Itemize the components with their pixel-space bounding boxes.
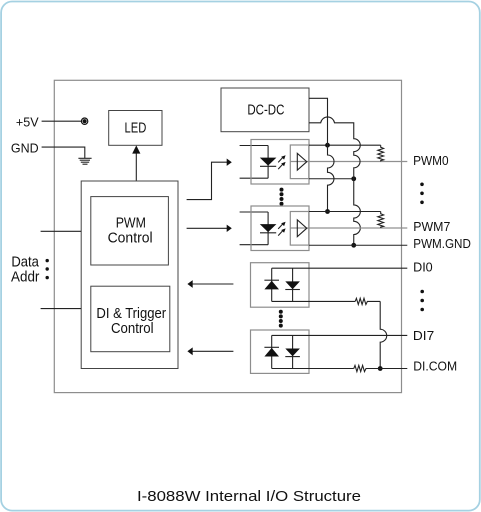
wire PWM.GND [309,244,407,246]
light arrows [278,157,283,169]
svg-text:DI7: DI7 [413,328,434,343]
ground symbol [78,158,91,164]
svg-text:Control: Control [108,230,153,247]
PWM7 output line [291,227,408,229]
bus dots [46,259,49,279]
wire VCC1 [309,144,381,146]
ellipsis DI labels [420,290,424,312]
wire left link [271,335,273,368]
opto box U1 [251,140,309,185]
buffer triangle U2 [297,220,307,237]
wire DI rail [380,301,387,368]
diode D4b (down) [292,335,294,368]
svg-text:GND: GND [11,140,39,155]
svg-text:PWM.GND: PWM.GND [413,236,471,251]
svg-text:DI0: DI0 [413,260,433,275]
wire arrow to LED [135,153,137,181]
buffer box U1 [290,145,309,179]
PWM Control block [91,197,169,265]
wire DI0 line [272,267,408,269]
main enclosure box [54,80,401,392]
wire DI7 line [272,334,408,336]
ellipsis PWM labels [420,183,424,205]
wire rail A (isolated VCC) [309,98,334,211]
opto-isolator U3 (DI0 channel) [251,263,408,308]
wire data bus [41,230,82,232]
svg-text:LED: LED [125,120,147,137]
DI & Trigger Control block [91,286,170,352]
opto box U3 [251,263,310,308]
wire inputs U1 [240,146,269,179]
junction DI rail / DI.COM [378,366,383,371]
svg-text:PWM0: PWM0 [413,153,449,168]
resistor R4 [354,365,408,371]
resistor R2 [378,212,384,229]
junction rail B / return1 [351,176,356,181]
diode D3b (down) [292,268,294,301]
LED D2 [260,224,277,232]
wire arrow DI ch1 [192,283,233,285]
svg-text:DC-DC: DC-DC [247,101,284,118]
svg-text:Addr: Addr [11,269,39,286]
opto box U2 [251,206,309,251]
wire arrow DI ch2 [192,350,233,352]
light arrows [278,224,283,236]
resistor R3 [355,298,380,304]
wire GND [42,147,85,158]
junction rail A / VCC1 [325,143,330,148]
svg-text:+5V: +5V [16,115,39,130]
junction rail B / PWM.GND [351,243,356,248]
opto box U4 [251,330,310,373]
wire DI.COM return [272,368,354,370]
wire VCC2 [309,211,381,213]
svg-text:DI.COM: DI.COM [413,359,457,374]
ellipsis between DI optos [279,310,283,328]
diode D3a (up) [264,281,279,290]
wire arrow PWM ch1 (elbow) [187,162,228,199]
svg-text:I-8088W Internal I/O Structure: I-8088W Internal I/O Structure [137,489,361,505]
opto-isolator U4 (DI7 channel) [251,330,408,373]
LED D1 [260,158,277,166]
ellipsis between PWM optos [280,188,284,206]
junction rail A / VCC2 [325,209,330,214]
svg-text:PWM7: PWM7 [413,219,450,234]
LED box [109,111,162,146]
wire +5V [42,120,82,122]
wire addr bus [41,308,82,310]
resistor R1 [378,145,384,161]
terminal +5V [81,118,87,124]
wire DI0 return [272,300,356,302]
svg-text:Control: Control [111,320,154,337]
DC-DC converter box [221,88,309,132]
PWM0 output line [291,161,408,163]
opto-isolator U1 (PWM0 channel) [240,140,408,185]
wire arrow PWM ch2 [187,227,228,229]
control outer box [81,181,178,369]
wire left link [271,268,273,301]
wire inputs U2 [240,212,269,245]
wire return1 [309,178,354,180]
wire rail B (isolated GND) [309,117,360,245]
opto-isolator U2 (PWM7 channel) [240,206,408,251]
buffer triangle U1 [297,153,307,170]
buffer box U2 [290,212,309,246]
diode D4a (up) [264,348,279,357]
